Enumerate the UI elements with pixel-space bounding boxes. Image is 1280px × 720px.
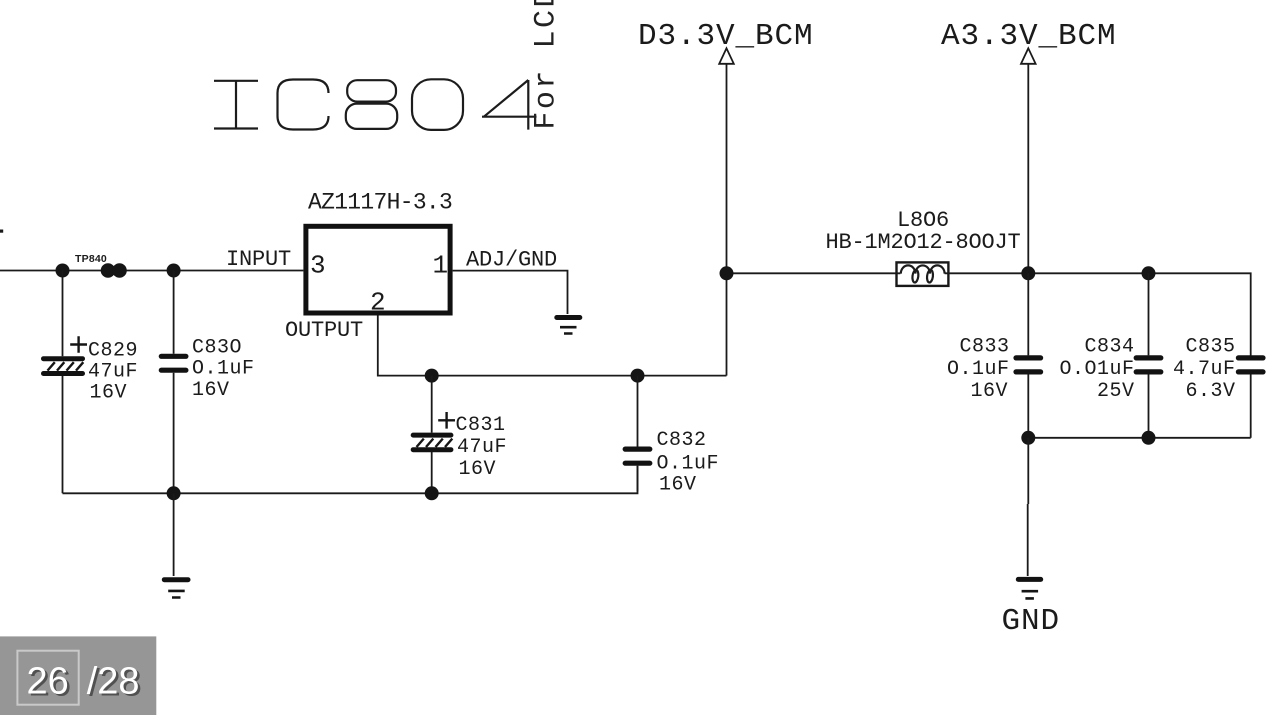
svg-text:1: 1 (433, 251, 449, 281)
power arrow D3.3V_BCM (719, 48, 734, 64)
svg-text:HB-1M2O12-8OOJT: HB-1M2O12-8OOJT (826, 230, 1021, 255)
svg-text:C834: C834 (1084, 335, 1134, 358)
svg-text:16V: 16V (90, 381, 128, 404)
svg-text:3: 3 (310, 251, 326, 281)
svg-text:C83O: C83O (192, 337, 242, 360)
wire D3.3V vertical (726, 64, 728, 376)
svg-text:C831: C831 (456, 414, 506, 437)
node dot gnd/C834 (1142, 431, 1156, 445)
svg-text:O.1uF: O.1uF (192, 358, 255, 381)
wire input rail (0, 270, 303, 272)
svg-text:AZ1117H-3.3: AZ1117H-3.3 (308, 190, 452, 216)
capacitor C834 (1059, 273, 1160, 438)
node dot rail/C830 ground (167, 486, 181, 500)
power arrow A3.3V_BCM (1021, 48, 1036, 64)
wire pin2/output (378, 316, 727, 376)
capacitor C830 (161, 271, 254, 494)
node dot rail/C831 (425, 486, 439, 500)
ground symbol GND (1018, 579, 1040, 598)
wire A3.3V vertical (1027, 64, 1029, 273)
svg-text:OUTPUT: OUTPUT (285, 318, 363, 343)
capacitor C831 (polarized) (413, 376, 507, 494)
svg-text:47uF: 47uF (457, 436, 507, 459)
capacitor C829 (polarized) (44, 271, 139, 494)
svg-text:ADJ/GND: ADJ/GND (466, 248, 557, 273)
svg-text:25V: 25V (1097, 380, 1135, 403)
svg-text:C833: C833 (959, 335, 1009, 358)
node dot gnd/C833 (1021, 431, 1035, 445)
svg-text:26: 26 (27, 660, 69, 702)
svg-text:16V: 16V (970, 380, 1008, 403)
IC804 designator (large stroke glyphs) (214, 79, 537, 130)
testpoint TP840 (75, 253, 127, 278)
capacitor C833 (947, 273, 1041, 438)
node dot output/C831 (425, 369, 439, 383)
svg-text:16V: 16V (192, 379, 230, 402)
wire ground stem right (1027, 438, 1030, 576)
stub fragment at left edge (0, 230, 3, 233)
node dot A3.3V rail (1021, 266, 1035, 280)
svg-text:LCD: LCD (530, 0, 564, 49)
svg-text:For: For (530, 68, 564, 130)
capacitor C835 (1173, 335, 1263, 437)
page indicator 26/28 (0, 636, 156, 715)
node dot input/C829 (56, 264, 70, 278)
svg-text:/28: /28 (87, 660, 140, 702)
node dot D3.3V rail (720, 266, 734, 280)
svg-text:TP840: TP840 (75, 253, 107, 265)
svg-text:C829: C829 (88, 339, 138, 362)
wire pin1 to ground (453, 271, 568, 314)
wire inductor to right (945, 273, 1251, 356)
svg-text:2: 2 (370, 288, 386, 318)
svg-text:O.1uF: O.1uF (657, 453, 720, 476)
svg-text:C835: C835 (1185, 335, 1235, 358)
wire ground stem left (173, 493, 175, 576)
svg-text:O.O1uF: O.O1uF (1059, 358, 1134, 381)
wire ground rail bottom right (1028, 437, 1250, 439)
node dot C834 top (1142, 266, 1156, 280)
wire ground rail bottom left (63, 466, 638, 494)
capacitor C832 (625, 376, 719, 497)
ground at ADJ/GND (557, 318, 580, 334)
svg-text:47uF: 47uF (88, 360, 138, 383)
node dot input/C830 (167, 264, 181, 278)
node dot output/C832 (631, 369, 645, 383)
inductor L806 (826, 208, 1021, 286)
ground symbol left (164, 580, 188, 598)
svg-text:C832: C832 (657, 429, 707, 452)
svg-text:GND: GND (1002, 604, 1061, 639)
svg-text:INPUT: INPUT (226, 247, 291, 272)
svg-text:16V: 16V (659, 474, 697, 497)
svg-text:4.7uF: 4.7uF (1173, 358, 1236, 381)
svg-text:16V: 16V (459, 458, 497, 481)
wire rail to inductor (727, 272, 901, 274)
svg-text:6.3V: 6.3V (1185, 380, 1235, 403)
svg-text:O.1uF: O.1uF (947, 358, 1010, 381)
